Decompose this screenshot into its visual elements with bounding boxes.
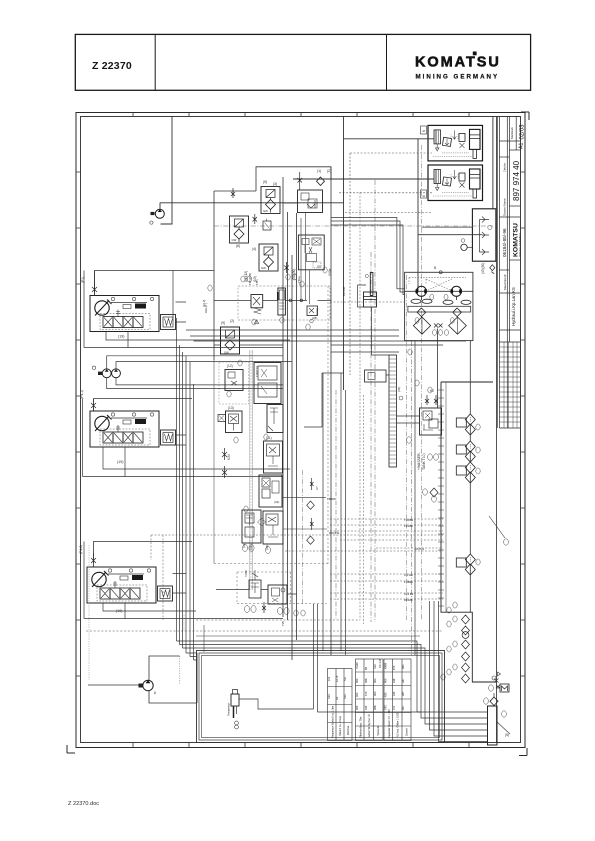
wire: below fan assembly bbox=[437, 329, 439, 409]
svg-text:T.Bh: T.Bh bbox=[255, 279, 259, 285]
leader line to tall box bbox=[489, 516, 505, 538]
svg-text:SFC: SFC bbox=[373, 664, 377, 669]
svg-text:GW: GW bbox=[224, 351, 229, 355]
svg-text:Z 22370.doc: Z 22370.doc bbox=[68, 801, 99, 807]
svg-text:4.1 ltr: 4.1 ltr bbox=[335, 675, 339, 682]
svg-text:TB/84h: TB/84h bbox=[327, 497, 336, 501]
svg-text:K6.1-M: K6.1-M bbox=[378, 658, 382, 668]
svg-text:460: 460 bbox=[355, 678, 359, 683]
wire: U1 right connections bbox=[173, 271, 186, 323]
fan box bbox=[472, 209, 496, 261]
cooler unit box 2 bbox=[428, 165, 483, 201]
valve V10 bbox=[226, 406, 243, 433]
wire: crossover dashed bbox=[409, 278, 466, 292]
svg-text:K468: K468 bbox=[384, 662, 388, 669]
valve V13 bbox=[259, 475, 282, 507]
wire: fan box feeds bbox=[418, 227, 482, 235]
motor-fan assembly box bbox=[405, 272, 473, 340]
check valve V6 bbox=[307, 306, 318, 323]
junction circle on box top bbox=[439, 271, 442, 274]
frame tick marks left bbox=[76, 172, 81, 676]
wire: pump P0 to right trunk bbox=[160, 202, 344, 204]
central trunk vertical x331 bbox=[330, 167, 332, 655]
dash-dot horizontal boundary y226 bbox=[214, 225, 493, 227]
svg-text:Hydraulik-: Hydraulik- bbox=[377, 725, 380, 736]
wire: long vertical x343 from top bbox=[343, 117, 345, 391]
diamond below fan box bbox=[490, 265, 495, 274]
filter trio F1 bbox=[456, 414, 475, 435]
svg-text:(P4.1): (P4.1) bbox=[80, 390, 84, 399]
svg-text:Maschinenf.: Maschinenf. bbox=[503, 274, 507, 290]
svg-text:460: 460 bbox=[355, 705, 359, 710]
valve GW V1 bbox=[261, 187, 280, 214]
corner crop mark bottom-left bbox=[67, 745, 75, 753]
svg-text:(32): (32) bbox=[274, 500, 279, 504]
corner crop mark top-right bbox=[521, 112, 529, 120]
sprinkle oval labels central bbox=[208, 267, 457, 616]
dotted vertical x184 bbox=[183, 615, 185, 631]
wire: lines under U1 to right bbox=[106, 332, 290, 348]
diamond D1 bbox=[317, 177, 325, 185]
tiny text labels sprinkle bbox=[202, 273, 382, 668]
central trunk vertical x345.5 bbox=[345, 390, 347, 655]
svg-text:06184/-85/-96: 06184/-85/-96 bbox=[502, 228, 507, 257]
wire: cooler2 feed from left bbox=[293, 178, 434, 180]
valve GW V7 bbox=[221, 327, 240, 355]
wire: U3 top feed bbox=[94, 542, 193, 568]
twin pump pair bbox=[92, 366, 120, 378]
X pair bottom center bbox=[434, 324, 443, 328]
wire: pump pair frame bbox=[107, 356, 292, 389]
inner sheet border bbox=[81, 117, 521, 743]
svg-text:875: 875 bbox=[392, 665, 396, 670]
corner crop mark bottom-right bbox=[519, 748, 527, 756]
svg-text:438: 438 bbox=[392, 678, 396, 683]
KOMATSU logo bbox=[415, 52, 499, 81]
port labels dashes left of tall box bbox=[404, 518, 425, 602]
U1 enclosure left edge bbox=[84, 271, 128, 348]
wire: U1 top feed bbox=[95, 271, 215, 296]
dashed verticals center-bottom bbox=[360, 192, 364, 624]
wire: dashed vertical at 350 bbox=[349, 153, 351, 375]
wire: bundle from left into bottom-right cooler bbox=[177, 641, 488, 724]
frame tick marks bottom bbox=[133, 743, 469, 748]
circle junctions on line bbox=[289, 299, 292, 302]
dashed: horizontal mid bundle bbox=[151, 534, 443, 536]
svg-text:F1/28K: F1/28K bbox=[404, 524, 413, 528]
wire: dashed return cooler1 bbox=[350, 152, 432, 154]
svg-text:Z 22370: Z 22370 bbox=[92, 60, 132, 72]
svg-text:Y25: Y25 bbox=[281, 621, 285, 626]
svg-text:Tagesöler Spann 4 lt. / 100: Tagesöler Spann 4 lt. / 100 bbox=[388, 709, 391, 738]
cooler unit box 1 bbox=[428, 125, 483, 160]
svg-text:400: 400 bbox=[355, 692, 359, 697]
wire: vertical main from coolers down bbox=[417, 139, 419, 292]
svg-text:KOMATSU: KOMATSU bbox=[415, 55, 499, 71]
wire: y330-341 bundle to fans bbox=[186, 330, 466, 341]
title block row lines bbox=[499, 140, 520, 142]
check valves left column bbox=[222, 448, 227, 478]
svg-text:(19): (19) bbox=[118, 335, 124, 339]
valve V11 bbox=[267, 405, 283, 433]
labels around fans bbox=[415, 294, 454, 335]
label box left of cooler2 bbox=[421, 190, 427, 198]
svg-text:Zentral-: Zentral- bbox=[406, 728, 409, 736]
svg-text:(28): (28) bbox=[312, 316, 317, 320]
svg-text:C6 P21: C6 P21 bbox=[415, 547, 425, 551]
unit U2 pump-valve assembly bbox=[90, 411, 176, 447]
svg-text:DK188: DK188 bbox=[404, 598, 413, 602]
wire: trunk verticals center bbox=[283, 177, 297, 660]
svg-text:897 974 40: 897 974 40 bbox=[512, 160, 521, 201]
dash-dot boundary vertical x371 bbox=[370, 252, 372, 622]
svg-text:400: 400 bbox=[384, 678, 388, 683]
svg-text:VG46: VG46 bbox=[355, 662, 359, 669]
svg-text:GW: GW bbox=[232, 238, 237, 242]
svg-text:48C: 48C bbox=[401, 664, 405, 669]
svg-text:CH.42t: CH.42t bbox=[404, 573, 413, 577]
svg-text:T.Bh1(25): T.Bh1(25) bbox=[248, 273, 252, 285]
svg-text:Wechsel-: Wechsel- bbox=[347, 725, 350, 735]
svg-text:470: 470 bbox=[364, 691, 368, 696]
svg-text:Zeichn.: Zeichn. bbox=[503, 162, 507, 172]
check X right of V3 bbox=[231, 188, 235, 198]
svg-text:A67: A67 bbox=[401, 678, 405, 683]
trio labels bbox=[476, 424, 480, 565]
svg-text:Hydraul.i.Kp.Lan KS: Hydraul.i.Kp.Lan KS bbox=[511, 287, 516, 326]
U2 enclosure left edge bbox=[83, 399, 126, 477]
check X under S3 bbox=[262, 602, 266, 613]
vertical rect cooler bottom-right bbox=[488, 706, 498, 745]
diamond column labels bbox=[441, 616, 457, 680]
svg-text:Ölbehandlung / Öler: Ölbehandlung / Öler bbox=[360, 716, 363, 738]
svg-text:68: 68 bbox=[364, 667, 368, 670]
svg-text:(9): (9) bbox=[221, 321, 225, 325]
svg-text:B: B bbox=[434, 266, 436, 270]
wire: fan circle bottom bbox=[492, 676, 496, 680]
diamond below motor bbox=[490, 697, 498, 706]
dotted vertical left border area bbox=[88, 545, 90, 680]
big diamonds bbox=[413, 317, 466, 334]
extra dashed bundle mid-right bbox=[285, 531, 443, 551]
svg-text:(45)(50): (45)(50) bbox=[481, 263, 485, 274]
svg-text:6: 6 bbox=[422, 130, 426, 132]
legend table rotated texts bbox=[332, 705, 409, 738]
svg-text:+WASSER-: +WASSER- bbox=[417, 452, 421, 470]
wire: V7 left to frame area bbox=[214, 344, 283, 346]
svg-text:GW: GW bbox=[261, 266, 266, 270]
svg-text:(12): (12) bbox=[227, 364, 233, 368]
svg-text:TANK T10): TANK T10) bbox=[422, 453, 426, 470]
boundary left step bbox=[214, 191, 256, 360]
valve V8 small bbox=[225, 364, 243, 391]
dashed box around lower cluster bbox=[237, 572, 327, 603]
wire: U2 top feed bbox=[94, 399, 193, 411]
diamond+X right of V13 bbox=[307, 478, 315, 509]
cylinder with piston bbox=[358, 273, 387, 383]
svg-text:(5): (5) bbox=[263, 180, 267, 184]
dash-dot boundary at x421.5 bbox=[421, 145, 423, 620]
bottom big box nested frames bbox=[197, 651, 445, 743]
svg-text:(2): (2) bbox=[230, 319, 234, 323]
svg-text:SFC: SFC bbox=[343, 694, 347, 699]
valve block V16 bbox=[268, 585, 287, 604]
svg-text:Temperatur: Temperatur bbox=[227, 703, 231, 716]
svg-text:Ölstand ca. 10 l/up: Ölstand ca. 10 l/up bbox=[339, 715, 342, 736]
svg-text:NG: NG bbox=[343, 677, 347, 681]
drawing/title strip separator vertical bbox=[496, 117, 498, 743]
connector diamond between V14 bbox=[258, 518, 266, 526]
svg-text:(1): (1) bbox=[317, 169, 321, 173]
left trunk vertical bundle 2 bbox=[190, 362, 194, 660]
internal bar bbox=[408, 306, 471, 312]
svg-text:371: 371 bbox=[392, 705, 396, 710]
valve GW V4 bbox=[259, 244, 278, 271]
svg-text:(16.2): (16.2) bbox=[202, 300, 206, 307]
central block boundary polyline bbox=[256, 167, 331, 191]
check valve diamonds small bbox=[417, 308, 461, 317]
wire: lines from ladder right to valve bbox=[304, 373, 420, 427]
svg-text:36C: 36C bbox=[373, 691, 377, 696]
check X pair above valve V17 bbox=[425, 395, 438, 405]
diamond w circles D2 bbox=[430, 488, 438, 497]
svg-text:02/03: 02/03 bbox=[520, 124, 526, 140]
unit U1 pump-valve assembly bbox=[90, 296, 176, 332]
small box component left bbox=[263, 221, 271, 230]
svg-text:(3): (3) bbox=[273, 182, 277, 186]
valve V2 block bbox=[298, 190, 323, 213]
valve pair V14b bbox=[263, 511, 283, 544]
svg-text:(6): (6) bbox=[236, 244, 240, 248]
svg-text:445: 445 bbox=[392, 691, 396, 696]
svg-text:(P4.2): (P4.2) bbox=[79, 545, 83, 554]
svg-text:KOMATSU: KOMATSU bbox=[513, 223, 520, 257]
wire: cooler enclosure vertical right bbox=[492, 117, 494, 209]
dashed container right edge bbox=[327, 286, 329, 564]
svg-text:38K: 38K bbox=[373, 705, 377, 710]
dashed boundary around solenoid cluster bbox=[238, 286, 330, 320]
legend table T3 bbox=[384, 659, 411, 741]
dashed container left lower bbox=[213, 360, 215, 564]
filter trio F4 bbox=[456, 554, 475, 575]
svg-text:A7: A7 bbox=[315, 486, 319, 490]
legend table T2 bbox=[356, 659, 384, 741]
svg-text:(4): (4) bbox=[252, 247, 256, 251]
left trunk vertical bundle bbox=[177, 318, 187, 653]
terminal ladder strip bbox=[389, 355, 397, 467]
central trunk vertical x323 bbox=[322, 373, 324, 650]
pump P0 top-left bbox=[150, 209, 165, 224]
wire: upper-left long horizontal bbox=[94, 271, 96, 296]
svg-text:(31): (31) bbox=[266, 436, 272, 440]
small solenoid box left of V10 bbox=[218, 415, 226, 422]
solenoid valve S2 bbox=[277, 288, 285, 315]
solid: long horizontal y345 to right bbox=[331, 345, 443, 352]
filter trio F2 bbox=[456, 441, 475, 462]
fan motor 1 bbox=[411, 286, 432, 303]
svg-text:(P1): (P1) bbox=[81, 277, 85, 283]
valve block V9 bbox=[254, 363, 281, 404]
wire: dashed port lines into tall box bbox=[330, 519, 443, 525]
svg-text:GW: GW bbox=[263, 209, 268, 213]
svg-text:6: 6 bbox=[422, 195, 426, 197]
wire: port lines to labels bbox=[283, 497, 327, 529]
wire: pump P6 connections bbox=[88, 653, 197, 703]
svg-text:P22/P11: P22/P11 bbox=[329, 531, 340, 535]
dashed: bundle y620-628 bbox=[86, 620, 443, 631]
legend table small cell texts bbox=[327, 662, 405, 710]
svg-text:K6.1-M: K6.1-M bbox=[342, 286, 346, 296]
svg-text:SFC: SFC bbox=[327, 694, 331, 699]
title block revision table bbox=[499, 342, 520, 428]
svg-text:F:JB91: F:JB91 bbox=[404, 580, 413, 584]
dash-dot boundary vertical x375 bbox=[374, 180, 376, 622]
dashed: from solenoids right to fans area bbox=[331, 218, 405, 295]
title block column lines bbox=[496, 117, 498, 429]
svg-text:(19): (19) bbox=[117, 460, 123, 464]
wire: ladder top connection bbox=[372, 307, 390, 375]
svg-text:MINING GERMANY: MINING GERMANY bbox=[519, 232, 522, 256]
dotted vertical near pump P6 bbox=[179, 656, 181, 684]
svg-text:Y25b: Y25b bbox=[244, 570, 248, 577]
wire: cluster connects bbox=[216, 590, 297, 595]
svg-text:außen 50 l/kg hyd. Öl: außen 50 l/kg hyd. Öl bbox=[368, 714, 371, 737]
wire: vertical through trios bbox=[469, 341, 471, 612]
frame tick marks right bbox=[521, 172, 526, 676]
wire: x303-309 verticals bbox=[301, 212, 310, 304]
X port above U2 bbox=[91, 399, 96, 411]
check X above V2 bbox=[298, 172, 303, 190]
svg-text:Y10a: Y10a bbox=[297, 276, 301, 283]
svg-text:C16.B3: C16.B3 bbox=[404, 592, 414, 596]
unit U3 pump-valve assembly bbox=[87, 567, 173, 603]
header box bbox=[75, 34, 530, 90]
valve block V2b bbox=[298, 235, 324, 270]
solenoid cluster labels bbox=[244, 268, 332, 282]
svg-text:467: 467 bbox=[401, 705, 405, 710]
svg-text:48K: 48K bbox=[364, 678, 368, 683]
label bubbles under cluster bbox=[242, 545, 289, 615]
wire: line through motor centers bbox=[405, 290, 473, 292]
labels under V14 bbox=[242, 543, 269, 550]
dashed: left dashed verticals bbox=[151, 535, 163, 620]
svg-text:445: 445 bbox=[364, 705, 368, 710]
central dash-dot x336 bbox=[335, 390, 337, 620]
solenoid valve S1 bbox=[251, 295, 263, 324]
dashed box around V8 bbox=[219, 362, 249, 404]
svg-text:T40/B4: T40/B4 bbox=[404, 518, 413, 522]
valve V12 big bbox=[264, 436, 283, 473]
svg-text:Datum Name: Datum Name bbox=[503, 198, 507, 216]
wire: lines under U2 bbox=[103, 447, 290, 477]
svg-text:MINING GERMANY: MINING GERMANY bbox=[416, 74, 499, 81]
wire: cooler1 feed horizontal bbox=[344, 138, 435, 140]
wire: U3 right connections bbox=[173, 574, 187, 594]
svg-text:36C: 36C bbox=[373, 678, 377, 683]
svg-text:6: 6 bbox=[154, 691, 156, 695]
valve pair V14a bbox=[242, 510, 261, 543]
tall box with terminal ticks (stepped polygon) bbox=[438, 382, 497, 682]
X port below center bbox=[284, 262, 289, 273]
legend table T1 bbox=[328, 669, 353, 741]
dashed container bottom bbox=[214, 563, 328, 565]
svg-text:Temperatur (Vorlauf) ca. 1 lit: Temperatur (Vorlauf) ca. 1 litre bbox=[332, 705, 335, 738]
svg-text:A5: A5 bbox=[335, 696, 339, 700]
small oval labels bbox=[407, 437, 439, 460]
valve V17 bbox=[420, 408, 442, 435]
svg-text:(13): (13) bbox=[228, 406, 234, 410]
X port above U1 bbox=[92, 282, 97, 292]
svg-text:SFC: SFC bbox=[384, 705, 388, 710]
central trunk vertical x341 bbox=[340, 373, 342, 650]
fan motor 2 bbox=[443, 286, 471, 304]
wire: motor connect bbox=[493, 693, 495, 706]
dash-dot vertical x302.5 bbox=[302, 470, 304, 604]
wire: from top border down to pump P0 loop bbox=[160, 117, 172, 225]
X port left of center bbox=[253, 214, 258, 224]
frame tick marks top bbox=[133, 113, 469, 117]
svg-text:420: 420 bbox=[384, 692, 388, 697]
svg-text:T20/T10: T20/T10 bbox=[255, 365, 259, 377]
X port above U3 bbox=[91, 553, 96, 563]
svg-text:38T: 38T bbox=[401, 691, 405, 696]
svg-text:NG hyd. Ölfilter 1 l/200: NG hyd. Ölfilter 1 l/200 bbox=[397, 712, 400, 737]
valve GW V3 bbox=[230, 216, 249, 243]
svg-text:(36): (36) bbox=[397, 387, 401, 392]
wire: dashed return cooler2 bbox=[339, 192, 432, 194]
wire: horizontal through solenoids bbox=[214, 299, 331, 301]
solenoid valve S3 bbox=[244, 570, 261, 598]
wire: U2 right connections bbox=[176, 435, 187, 445]
svg-text:(9): (9) bbox=[317, 265, 321, 269]
dashed vertical right of U2 bbox=[250, 350, 253, 590]
filter trio F3 bbox=[456, 462, 475, 483]
thermometer sensor bbox=[227, 690, 240, 729]
vertical pair x411.5/415 from fan box down bbox=[411, 341, 413, 655]
solid vertical into bottom box top bbox=[203, 625, 205, 652]
wire: thermometer connect bbox=[239, 694, 314, 709]
svg-text:Maßstab: Maßstab bbox=[510, 127, 514, 139]
outer sheet border bbox=[76, 113, 525, 748]
svg-text:110: 110 bbox=[327, 676, 331, 681]
svg-text:A1: A1 bbox=[519, 143, 525, 149]
svg-text:(5): (5) bbox=[505, 733, 509, 737]
wire: right verticals to bottom bbox=[497, 687, 501, 689]
wire: V2 to trunk bbox=[283, 202, 298, 204]
wire: bundle vertical pair bottom center bbox=[314, 604, 421, 712]
gauge circle at fan bbox=[461, 244, 467, 250]
label box 6 left of cooler1 bbox=[421, 126, 427, 134]
wire: lines under U3 bbox=[103, 603, 283, 619]
title block texts (rotated) bbox=[502, 124, 526, 326]
bottom diamonds column bbox=[462, 615, 470, 683]
svg-text:(2): (2) bbox=[327, 169, 331, 173]
motor M bbox=[489, 684, 509, 692]
U3 enclosure left edge bbox=[84, 542, 125, 619]
svg-text:K34: K34 bbox=[227, 454, 231, 460]
pump P6 bottom bbox=[139, 680, 157, 695]
